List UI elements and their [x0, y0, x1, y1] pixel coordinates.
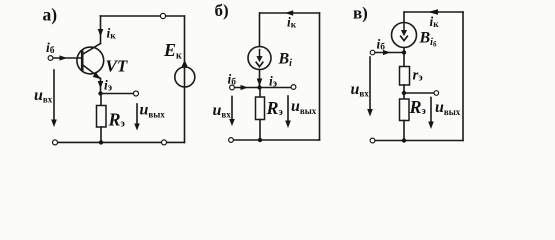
- node: input junction (в): [402, 50, 406, 54]
- terminal: input (б): [230, 85, 235, 90]
- wire: mid horizontal (б): [235, 87, 292, 89]
- wire: top horizontal (в): [405, 11, 464, 13]
- wire: source top lead (б): [259, 13, 261, 47]
- wire: source bottom lead (б): [259, 70, 261, 88]
- node: bottom junction (б): [258, 138, 262, 142]
- resistor R_э (б): [256, 88, 265, 141]
- svg-text:в): в): [353, 4, 368, 23]
- terminal: bottom left (б): [229, 138, 234, 143]
- arrow i_к (в): [428, 9, 438, 14]
- wire: emitter vertical (а): [100, 79, 102, 94]
- arrow i_к (а): [98, 29, 104, 37]
- terminal: bottom left (а): [53, 140, 58, 145]
- svg-text:VT: VT: [106, 57, 128, 76]
- wire: input (в): [375, 52, 404, 54]
- arrow u_вх (а): [53, 70, 55, 120]
- arrow i_б (б): [241, 85, 249, 90]
- wire: right vertical (в): [462, 12, 464, 141]
- arrow i_э (б): [257, 79, 263, 87]
- node: bottom junction (в): [402, 138, 406, 142]
- wire: collector vertical (а): [100, 16, 102, 44]
- resistor R_э (в): [400, 93, 410, 141]
- wire: bottom horizontal (а): [58, 141, 185, 143]
- node: mid junction (б): [257, 85, 261, 89]
- resistor r_э: [400, 67, 410, 94]
- transistor VT: [77, 44, 104, 80]
- terminal: input (в): [370, 50, 375, 55]
- current source B_iб: [392, 23, 417, 48]
- wire: bottom horizontal (б): [234, 139, 320, 141]
- wire: top horizontal (б): [260, 12, 320, 14]
- voltage source E_к: [175, 60, 195, 87]
- wire: branch to output terminal (в): [404, 92, 434, 94]
- arrow u_вх (в): [369, 57, 371, 110]
- arrow i_к (б): [285, 10, 293, 15]
- terminal: output mid (б): [291, 85, 296, 90]
- wire: source top lead (в): [403, 12, 405, 23]
- wire: top horizontal (а): [101, 15, 185, 17]
- wire: source bottom lead (в): [403, 48, 405, 67]
- terminal: top output (а): [160, 13, 165, 18]
- arrow u_вых (в): [430, 98, 432, 123]
- terminal: bottom right (а): [162, 140, 167, 145]
- terminal: output mid (а): [134, 91, 139, 96]
- svg-text:б): б): [215, 1, 229, 20]
- terminal: output mid (в): [434, 91, 439, 96]
- arrow i_б (в): [383, 50, 391, 55]
- resistor R_э (а): [97, 94, 107, 143]
- wire: branch to output terminal (а): [101, 93, 134, 95]
- current source B_i: [248, 47, 271, 70]
- wire: base input (а): [53, 57, 82, 59]
- node: emitter junction (а): [98, 91, 102, 95]
- wire: bottom horizontal (в): [375, 140, 463, 142]
- arrow u_вых (б): [287, 96, 289, 121]
- arrow u_вых (а): [136, 104, 138, 124]
- arrow u_вх (б): [231, 97, 233, 120]
- arrow i_э (а): [98, 81, 104, 89]
- node: bottom junction (а): [99, 140, 103, 144]
- arrow i_б (а): [60, 55, 68, 60]
- svg-text:а): а): [43, 5, 58, 25]
- terminal: input top (а): [48, 56, 53, 61]
- wire: right vertical (б): [319, 13, 321, 140]
- terminal: bottom left (в): [370, 138, 375, 143]
- wire: right vertical (а): [184, 16, 186, 142]
- node: mid junction (в): [402, 91, 406, 95]
